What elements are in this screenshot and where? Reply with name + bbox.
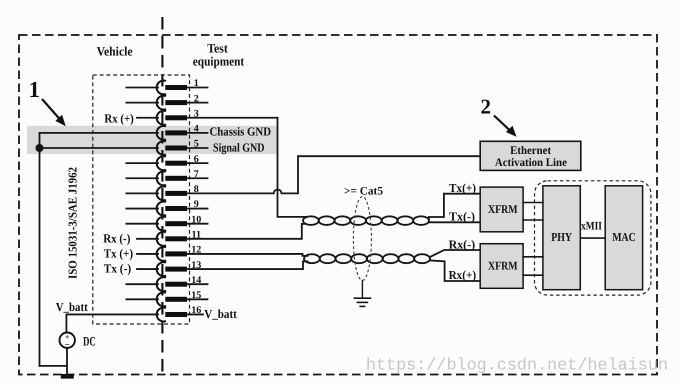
svg-text:DC: DC <box>83 333 96 348</box>
svg-text:>= Cat5: >= Cat5 <box>344 185 383 197</box>
svg-text:Signal GND: Signal GND <box>213 141 265 155</box>
svg-text:XFRM: XFRM <box>488 259 518 273</box>
svg-text:2: 2 <box>481 95 492 119</box>
svg-text:Tx (+): Tx (+) <box>104 247 133 261</box>
svg-text:PHY: PHY <box>551 230 572 244</box>
svg-text:Test: Test <box>207 41 228 55</box>
svg-text:https://blog.csdn.net/helaisun: https://blog.csdn.net/helaisun <box>366 357 668 376</box>
svg-text:Rx (-): Rx (-) <box>103 232 130 246</box>
svg-text:V_batt: V_batt <box>204 307 237 321</box>
svg-text:Tx (-): Tx (-) <box>104 261 131 275</box>
svg-text:Chassis GND: Chassis GND <box>210 124 272 138</box>
svg-text:V_batt: V_batt <box>56 300 88 314</box>
svg-text:Rx(-): Rx(-) <box>449 237 476 251</box>
svg-text:ISO 15031-3/SAE J1962: ISO 15031-3/SAE J1962 <box>65 167 79 279</box>
svg-text:Tx(+): Tx(+) <box>449 181 476 195</box>
svg-text:equipment: equipment <box>193 55 245 69</box>
svg-text:Tx(-): Tx(-) <box>449 210 475 224</box>
svg-text:MAC: MAC <box>612 230 635 244</box>
svg-text:Rx(+): Rx(+) <box>449 268 477 282</box>
svg-text:XFRM: XFRM <box>488 202 518 216</box>
svg-text:−: − <box>65 339 70 349</box>
svg-text:xMII: xMII <box>581 220 602 233</box>
svg-text:Activation Line: Activation Line <box>495 156 567 169</box>
svg-text:1: 1 <box>29 77 41 102</box>
svg-text:Vehicle: Vehicle <box>97 44 133 58</box>
svg-text:Rx (+): Rx (+) <box>104 111 133 125</box>
